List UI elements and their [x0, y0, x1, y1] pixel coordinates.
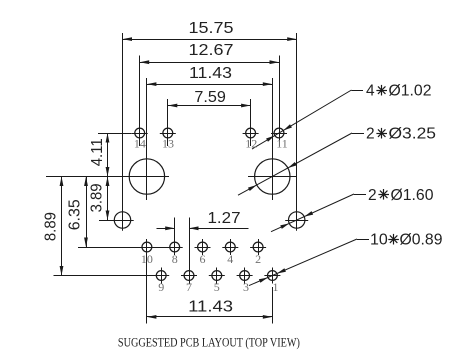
svg-text:4.11: 4.11 [89, 138, 106, 166]
svg-text:Ø0.89: Ø0.89 [400, 232, 443, 249]
svg-text:10: 10 [141, 252, 153, 266]
svg-text:11.43: 11.43 [189, 65, 232, 82]
svg-text:13: 13 [162, 137, 174, 151]
svg-text:6.35: 6.35 [67, 199, 84, 230]
svg-text:2: 2 [366, 126, 375, 143]
svg-text:7: 7 [186, 280, 192, 294]
svg-text:4: 4 [227, 252, 233, 266]
svg-text:14: 14 [134, 137, 146, 151]
svg-text:12.67: 12.67 [189, 42, 234, 59]
svg-text:Ø1.02: Ø1.02 [389, 83, 432, 100]
svg-text:2: 2 [368, 187, 377, 204]
svg-text:7.59: 7.59 [194, 89, 226, 106]
svg-text:15.75: 15.75 [189, 20, 234, 37]
svg-text:5: 5 [214, 280, 220, 294]
svg-text:1.27: 1.27 [208, 210, 241, 227]
svg-text:4: 4 [366, 83, 375, 100]
svg-text:2: 2 [255, 252, 261, 266]
svg-text:11: 11 [276, 137, 288, 151]
svg-text:8.89: 8.89 [43, 212, 60, 241]
svg-text:1: 1 [273, 280, 279, 294]
svg-text:3: 3 [243, 280, 249, 294]
svg-text:8: 8 [172, 252, 178, 266]
svg-text:9: 9 [158, 280, 164, 294]
svg-text:SUGGESTED PCB LAYOUT (TOP VIEW: SUGGESTED PCB LAYOUT (TOP VIEW) [118, 335, 300, 350]
svg-text:6: 6 [200, 252, 206, 266]
svg-text:10: 10 [370, 232, 388, 249]
svg-text:3.89: 3.89 [89, 183, 106, 212]
svg-text:Ø1.60: Ø1.60 [391, 187, 434, 204]
svg-text:11.43: 11.43 [188, 299, 233, 316]
svg-text:12: 12 [245, 137, 257, 151]
svg-text:Ø3.25: Ø3.25 [389, 126, 437, 143]
